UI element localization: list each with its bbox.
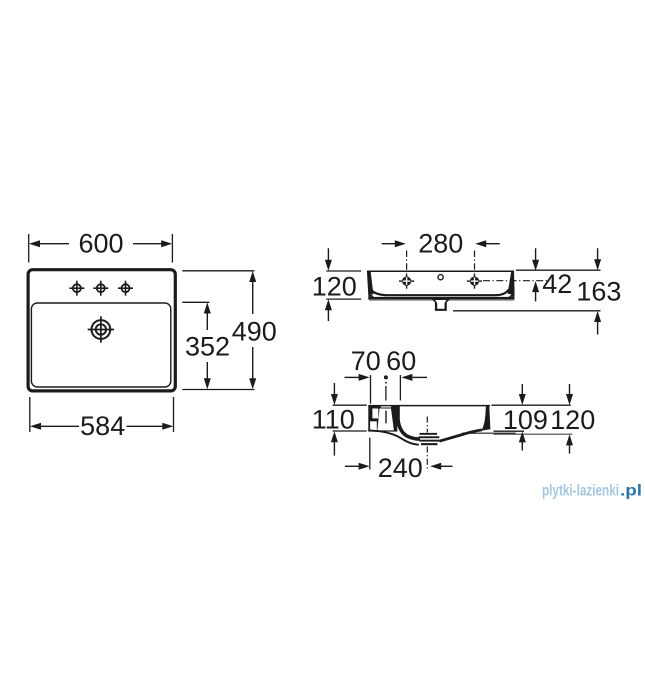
basin outer rim rect xyxy=(28,270,175,391)
bowl inner U wall xyxy=(398,406,420,439)
dim 584 ext lines xyxy=(29,397,31,432)
svg-text:584: 584 xyxy=(80,411,125,441)
dim 120 side arrows xyxy=(566,384,573,454)
dim 109 bottom ext line xyxy=(494,430,525,432)
side apron block xyxy=(368,405,397,432)
dim 280 line + arrows xyxy=(382,240,500,247)
floor line right of drain xyxy=(439,430,482,441)
dim 42 arrows xyxy=(532,248,539,301)
thin under line xyxy=(462,432,516,434)
side hole symbol left xyxy=(399,274,414,289)
drain trap bars xyxy=(420,433,438,435)
svg-text:163: 163 xyxy=(576,277,621,307)
shared bottom ext line (352/490) xyxy=(182,389,254,391)
svg-text:42: 42 xyxy=(542,269,572,299)
faucet hole 2 xyxy=(93,281,108,296)
svg-text:60: 60 xyxy=(386,346,416,376)
white notch in apron xyxy=(372,409,378,419)
bowl outer underside xyxy=(368,430,419,445)
dim 352 arrows xyxy=(204,303,211,390)
hole centerline dot+dash xyxy=(384,375,388,379)
side top thin edge over bowl xyxy=(397,405,490,407)
dim 490 top ext line xyxy=(182,270,254,272)
drain centerline (side) upper xyxy=(426,417,428,433)
right wall wedge xyxy=(481,406,490,431)
svg-text:120: 120 xyxy=(312,272,357,302)
dim 584 line + arrows xyxy=(30,423,173,430)
dim 110 arrows xyxy=(331,383,338,456)
dim 163 top ext line xyxy=(516,269,601,271)
centerline right hole xyxy=(474,251,476,273)
basin inner bowl rect xyxy=(31,303,170,387)
faucet hole void (white trapezoid) xyxy=(377,409,394,431)
svg-text:109: 109 xyxy=(503,405,548,435)
dim 240 line + arrows xyxy=(345,463,453,470)
svg-text:120: 120 xyxy=(550,405,595,435)
dim 109 arrows xyxy=(519,384,526,451)
faucet hole 3 xyxy=(118,281,133,296)
front top edge xyxy=(367,270,514,272)
dim 120 bottom ext line xyxy=(494,433,573,435)
faucet hole center tick xyxy=(385,411,386,424)
centerline horizontal to 42 dim xyxy=(483,280,548,282)
svg-text:352: 352 xyxy=(185,331,230,361)
centerline left hole xyxy=(406,251,408,273)
faucet hole 1 xyxy=(69,281,84,296)
overflow hole xyxy=(438,275,443,280)
drain centerline (side) lower xyxy=(426,447,428,471)
front bottom shadow xyxy=(369,299,514,301)
dim 120 front arrows xyxy=(325,248,332,321)
drain (plan) xyxy=(88,316,114,342)
side hole symbol right xyxy=(467,274,482,289)
dim 109/120: top ext line xyxy=(492,404,571,406)
dim 600 line + arrows xyxy=(29,240,172,247)
dim 163 bottom ext line xyxy=(453,310,601,312)
svg-text:70: 70 xyxy=(351,346,381,376)
svg-text:280: 280 xyxy=(418,229,463,259)
svg-text:110: 110 xyxy=(312,405,355,435)
dim 70/60: ext lines xyxy=(370,375,372,404)
white slit in deck xyxy=(381,406,391,407)
svg-text:.pl: .pl xyxy=(620,483,642,500)
svg-text:490: 490 xyxy=(232,316,277,346)
white lower apron area xyxy=(370,421,377,430)
dim 240: left ext line xyxy=(369,438,371,470)
svg-text:plytki-lazienki: plytki-lazienki xyxy=(542,483,619,500)
dim 600 ext lines xyxy=(28,234,30,263)
front bottom band xyxy=(368,297,514,300)
front bowl floor line xyxy=(371,289,509,296)
front bottom band end caps xyxy=(368,292,374,297)
front drain funnel xyxy=(430,297,452,311)
front left wall xyxy=(367,271,374,295)
dim 110: ext lines xyxy=(333,404,367,406)
front right wall xyxy=(508,271,515,295)
dim 120 front: ext lines xyxy=(326,270,361,272)
dim 490 arrows xyxy=(249,271,256,389)
dim 163 arrows xyxy=(594,248,601,334)
dim 352 ext lines xyxy=(182,301,209,303)
svg-text:240: 240 xyxy=(378,453,423,483)
dim 70/60 line + arrows xyxy=(345,374,428,381)
svg-text:600: 600 xyxy=(78,228,123,258)
